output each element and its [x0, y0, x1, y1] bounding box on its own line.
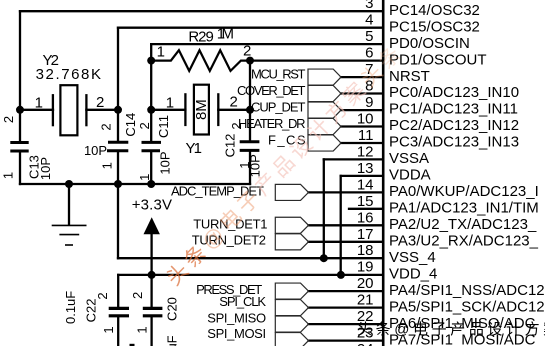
svg-text:1: 1 [157, 44, 165, 61]
wire VDDA pin13 row [341, 175, 383, 177]
wire node B vertical [117, 28, 119, 142]
wire tag TURN_DET1 to pin16 [309, 224, 384, 226]
wire Y2 pin2 to node B [86, 109, 118, 111]
svg-text:2: 2 [230, 93, 238, 110]
tag HEATER_DR [308, 118, 341, 134]
svg-text:PC15/OSC32: PC15/OSC32 [389, 18, 480, 35]
svg-text:C11: C11 [156, 115, 171, 138]
svg-text:17: 17 [357, 226, 374, 243]
wire VDDA vertical to VDD_4 [340, 176, 342, 275]
svg-text:10P: 10P [84, 143, 107, 158]
wire VSSA vertical to VSS_4 [323, 159, 325, 258]
capacitor C12 plates [240, 142, 260, 151]
tag PRESS_DET [275, 283, 308, 299]
wire C22 top lead [117, 275, 119, 308]
svg-text:0.1uF: 0.1uF [63, 291, 78, 324]
tag CUP_DET [308, 102, 341, 118]
svg-text:PA2/U2_TX/ADC123_: PA2/U2_TX/ADC123_ [389, 216, 537, 233]
svg-text:0.1uF: 0.1uF [165, 335, 180, 346]
svg-text:1: 1 [1, 172, 16, 179]
wire pin3 PC14 from node A [20, 10, 383, 12]
svg-text:14: 14 [357, 176, 374, 193]
resistor R29 1M [151, 50, 250, 71]
tag SPI_CLK [275, 300, 308, 316]
svg-text:4: 4 [365, 12, 373, 29]
wire node A vertical [19, 11, 21, 142]
svg-text:24: 24 [357, 341, 374, 346]
wire tag SPI_MISO to pin22 [309, 323, 384, 325]
tag COVER_DET [308, 85, 341, 101]
tag F_CS [308, 135, 341, 151]
wire tag SPI_MOSI to pin23 [309, 339, 384, 341]
svg-text:16: 16 [357, 209, 374, 226]
svg-text:2: 2 [95, 292, 110, 299]
wire pin4 PC15 from node B [118, 27, 383, 29]
IC U1 MCU left edge [382, 0, 385, 346]
capacitor C14 plates [107, 142, 128, 151]
svg-text:19: 19 [357, 259, 374, 276]
svg-text:2: 2 [130, 292, 145, 299]
svg-text:1: 1 [100, 162, 115, 169]
svg-text:C12: C12 [222, 134, 237, 158]
wire C12 bottom to rail [249, 151, 251, 184]
svg-text:2: 2 [96, 94, 104, 111]
junction rail-ground [65, 180, 73, 188]
svg-text:2: 2 [243, 43, 251, 60]
svg-text:12: 12 [357, 143, 374, 160]
wire +3.3V stem [150, 233, 152, 275]
svg-text:PC1/ADC123_IN11: PC1/ADC123_IN11 [389, 101, 518, 118]
junction rail-C14 [114, 180, 122, 188]
junction node B [114, 106, 122, 114]
capacitor C11 plates [142, 142, 162, 150]
svg-text:VDDA: VDDA [389, 167, 431, 184]
ground symbol [52, 184, 87, 245]
rotated capacitor labels [1, 99, 263, 346]
svg-text:1: 1 [237, 161, 252, 168]
wire C13 bottom to rail [19, 151, 21, 184]
junction R29 pin1 [147, 57, 155, 65]
svg-text:1: 1 [137, 174, 152, 181]
wire node C to Y1 pin1 [151, 109, 185, 111]
svg-text:1: 1 [166, 94, 174, 111]
wire node A to Y2 pin1 [20, 109, 53, 111]
svg-text:COVER_DET: COVER_DET [237, 83, 306, 98]
stray mark bottom [130, 344, 135, 346]
wire node C vertical [150, 44, 152, 142]
svg-text:10P: 10P [158, 151, 173, 174]
svg-text:1M: 1M [217, 26, 234, 43]
wire ground rail [20, 183, 250, 185]
svg-text:VSSA: VSSA [389, 150, 429, 167]
svg-text:2: 2 [99, 123, 114, 130]
wire tag F_CS to pin11 [341, 142, 383, 144]
svg-text:SPI_MISO: SPI_MISO [207, 310, 266, 325]
svg-text:3: 3 [365, 0, 373, 12]
tag TURN_DET2 [275, 234, 308, 250]
wire tag HEATER_DR to pin10 [341, 125, 383, 127]
svg-text:2: 2 [137, 122, 152, 129]
capacitor C20 plates [143, 308, 163, 315]
svg-text:C22: C22 [83, 298, 98, 322]
svg-text:10: 10 [357, 111, 374, 128]
tag SPI_MISO [275, 316, 308, 332]
wire node D vertical [249, 61, 251, 142]
wire pin5 PD0 from node C [151, 43, 383, 45]
svg-text:Y1: Y1 [186, 140, 203, 157]
svg-text:VDD_4: VDD_4 [389, 265, 437, 282]
junction node D [246, 106, 254, 114]
svg-text:SPI_CLK: SPI_CLK [219, 294, 266, 309]
svg-text:SPI_MOSI: SPI_MOSI [207, 326, 266, 341]
svg-text:PA0/WKUP/ADC123_I: PA0/WKUP/ADC123_I [389, 183, 539, 200]
junction node C [147, 106, 155, 114]
svg-text:5: 5 [365, 28, 373, 45]
watermark diagonal [162, 40, 408, 290]
net labels [171, 66, 306, 341]
wire tag COVER_DET to pin8 [341, 92, 383, 94]
wire C22 bottom lead [117, 317, 119, 346]
svg-text:20: 20 [357, 275, 374, 292]
tags group A pins 7-11 [275, 69, 341, 346]
svg-text:NRST: NRST [389, 68, 430, 85]
svg-text:PC0/ADC123_IN10: PC0/ADC123_IN10 [389, 84, 519, 101]
svg-text:13: 13 [357, 160, 374, 177]
capacitor C22 plates [109, 308, 129, 315]
svg-text:15: 15 [357, 193, 374, 210]
wire C20 top lead [150, 275, 152, 308]
junction R29 pin2 [246, 57, 254, 65]
svg-text:MCU_RST: MCU_RST [251, 66, 306, 81]
svg-text:10P: 10P [38, 157, 53, 180]
tag MCU_RST [308, 69, 341, 85]
power +3.3V arrow [144, 217, 160, 234]
wire VSS drop below rail at x118 [117, 184, 119, 258]
svg-text:R29: R29 [188, 29, 213, 46]
junction VSS-VSSA [320, 254, 328, 262]
svg-text:2: 2 [1, 116, 16, 123]
svg-text:PC14/OSC32: PC14/OSC32 [389, 2, 480, 19]
svg-text:VSS_4: VSS_4 [389, 249, 436, 266]
wire tag TURN_DET2 to pin17 [309, 241, 384, 243]
tag TURN_DET1 [275, 217, 308, 233]
wire Y1 pin2 to node D [218, 109, 250, 111]
wire C11 bottom to rail [150, 151, 152, 184]
svg-text:32.768K: 32.768K [36, 66, 101, 83]
tag SPI_MOSI [275, 333, 308, 346]
svg-text:1: 1 [101, 326, 116, 333]
junction rail-C11 [147, 180, 155, 188]
svg-text:8M: 8M [193, 99, 210, 120]
svg-text:PA5/SPI1_SCK/ADC12: PA5/SPI1_SCK/ADC12 [389, 298, 545, 315]
wire tag SPI_CLK to pin21 [309, 306, 384, 308]
svg-text:PA1/ADC123_IN1/TIM: PA1/ADC123_IN1/TIM [389, 200, 539, 217]
svg-text:PA4/SPI1_NSS/ADC12: PA4/SPI1_NSS/ADC12 [389, 282, 545, 299]
svg-text:C14: C14 [123, 113, 138, 137]
wire pin6 PD1 from node D [250, 59, 383, 61]
capacitor C13 plates [10, 143, 28, 152]
wire VDD_4 pin19 row [118, 274, 383, 276]
pin numbers [357, 0, 374, 346]
crystal Y1 [185, 85, 218, 135]
svg-text:1: 1 [35, 95, 43, 112]
svg-text:PC2/ADC123_IN12: PC2/ADC123_IN12 [389, 117, 519, 134]
junction VDD-C20 [148, 271, 156, 279]
wire C14 bottom to rail [117, 151, 119, 184]
wire tag ADC_TEMP_DET to pin14 [309, 191, 384, 193]
svg-text:2: 2 [229, 122, 244, 129]
wire pin15 stub [349, 208, 383, 210]
wire tag MCU_RST to pin7 [341, 76, 383, 78]
svg-text:18: 18 [357, 242, 374, 259]
crystal Y2 [53, 85, 87, 135]
svg-text:PC3/ADC123_IN13: PC3/ADC123_IN13 [389, 134, 519, 151]
svg-text:C20: C20 [165, 297, 180, 321]
svg-text:头条@电子产品设计方案: 头条@电子产品设计方案 [357, 320, 545, 338]
svg-text:HEATER_DR: HEATER_DR [238, 116, 306, 131]
wire tag PRESS_DET to pin20 [309, 290, 384, 292]
svg-text:PA3/U2_RX/ADC123_: PA3/U2_RX/ADC123_ [389, 233, 539, 250]
wire C20 bottom lead [150, 317, 152, 346]
junction VDD-VDDA [337, 271, 345, 279]
wire tag CUP_DET to pin9 [341, 109, 383, 111]
wire VSS_4 pin18 row [118, 257, 383, 259]
tag ADC_TEMP_DET [275, 184, 308, 200]
component value labels [35, 26, 252, 214]
junction node A [16, 106, 24, 114]
svg-text:21: 21 [357, 292, 374, 309]
svg-text:1: 1 [135, 326, 150, 333]
wire VSSA pin12 row [324, 158, 383, 160]
svg-text:+3.3V: +3.3V [132, 197, 172, 214]
svg-text:CUP_DET: CUP_DET [251, 99, 306, 114]
svg-text:11: 11 [358, 127, 374, 144]
